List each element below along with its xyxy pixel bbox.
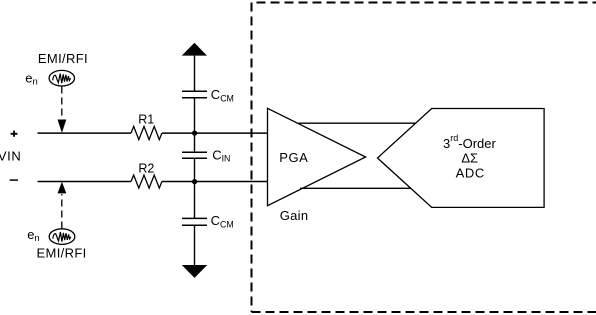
signal line PGA to ADC (bottom) xyxy=(300,187,411,189)
svg-text:en: en xyxy=(27,227,40,244)
wire: CIN bottom to CCM bottom (through bottom junction) xyxy=(194,158,196,218)
capacitor CIN xyxy=(182,152,207,158)
svg-text:EMI/RFI: EMI/RFI xyxy=(38,51,88,66)
svg-text:en: en xyxy=(25,70,38,87)
wire: R1 to PGA + input (through top junction) xyxy=(162,132,268,134)
svg-text:R2: R2 xyxy=(138,162,154,176)
wire: + input to R1 xyxy=(38,132,132,134)
svg-text:PGA: PGA xyxy=(279,150,308,165)
svg-text:ΔΣ: ΔΣ xyxy=(461,150,478,165)
signal line PGA to ADC (top) xyxy=(298,122,416,124)
svg-text:R1: R1 xyxy=(138,113,154,127)
dashed coupling arrow (bottom), pointing up into − input wire xyxy=(58,182,67,229)
noise source ellipse (bottom) xyxy=(49,229,75,245)
svg-text:EMI/RFI: EMI/RFI xyxy=(37,246,87,261)
svg-text:VIN: VIN xyxy=(0,148,21,163)
resistor R2 xyxy=(131,175,162,188)
svg-text:CCM: CCM xyxy=(211,87,234,103)
junction node (bottom) xyxy=(192,179,197,184)
dashed device boundary box xyxy=(252,3,596,313)
svg-text:ADC: ADC xyxy=(456,166,485,181)
op-amp PGA triangle xyxy=(268,108,366,205)
capacitor CCM (top) xyxy=(182,91,207,98)
off-page supply arrow (bottom) xyxy=(182,265,207,278)
svg-text:CCM: CCM xyxy=(211,213,234,230)
label − (inverting input) xyxy=(10,179,18,181)
ADC block (3rd-Order Delta-Sigma ADC) xyxy=(378,109,545,208)
dashed coupling arrow (top), pointing down into + input wire xyxy=(58,87,67,133)
resistor R1 xyxy=(131,126,162,139)
wire: CCM top to CIN top (through top junction) xyxy=(194,98,196,152)
svg-text:Gain: Gain xyxy=(280,208,309,223)
wire: CCM bottom to bottom arrow xyxy=(194,225,196,265)
capacitor CCM (bottom) xyxy=(182,218,207,225)
off-page supply arrow (top) xyxy=(182,43,207,56)
noise source ellipse (top) xyxy=(49,70,74,86)
wire: top arrow to CCM top xyxy=(194,55,196,91)
svg-text:CIN: CIN xyxy=(212,148,230,164)
wire: R2 to PGA − input (through bottom junction) xyxy=(162,181,268,183)
wire: − input to R2 xyxy=(38,181,132,183)
label + (noninverting input) xyxy=(11,131,18,137)
junction node (top) xyxy=(192,131,197,136)
